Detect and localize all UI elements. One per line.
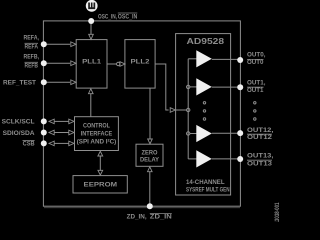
svg-text:(SPI AND I²C): (SPI AND I²C)	[77, 139, 117, 146]
svg-text:ZD_IN: ZD_IN	[150, 214, 172, 221]
block PLL1	[76, 40, 107, 89]
wire driver OUT0 output	[212, 58, 238, 60]
wire bus stub to driver OUT12	[190, 133, 197, 135]
svg-text:EEPROM: EEPROM	[84, 181, 118, 188]
block PLL2	[125, 40, 155, 89]
wire driver OUT13 output	[212, 158, 238, 160]
svg-text:OUT12: OUT12	[247, 134, 272, 141]
wire control interface up to PLL1	[90, 94, 92, 117]
arrowhead REFB into PLL1	[71, 61, 76, 66]
wire REFA to PLL1	[43, 43, 70, 45]
svg-text:INTERFACE: INTERFACE	[81, 131, 113, 138]
wire control interface to EEPROM	[99, 156, 101, 171]
svg-text:ZERO: ZERO	[142, 149, 158, 156]
wire bus stub to driver OUT1	[190, 86, 197, 88]
svg-text:OUT13,: OUT13,	[247, 152, 274, 159]
arrowheads SDIO bidirectional	[49, 130, 54, 135]
pin dot OUT12	[237, 130, 243, 136]
svg-text:DELAY: DELAY	[140, 157, 160, 164]
pin dot REFB	[41, 60, 47, 66]
pin dot REF_TEST	[41, 79, 47, 85]
arrowhead ZD_IN into zero delay	[148, 167, 153, 172]
block clock distribution AD9528	[176, 34, 231, 195]
svg-text:REFA,: REFA,	[24, 35, 40, 42]
wire ZD_IN pin up to zero delay	[149, 172, 151, 207]
block CONTROL INTERFACE	[75, 117, 119, 151]
wire REF_TEST to PLL1	[43, 81, 70, 83]
pin dot CS	[41, 140, 47, 146]
wire bus stub to driver OUT13	[188, 158, 196, 160]
wire REFB to PLL1	[43, 62, 70, 64]
pin dot ZD_IN	[147, 203, 153, 209]
svg-text:REFB: REFB	[25, 63, 39, 70]
svg-text:14-CHANNEL: 14-CHANNEL	[186, 180, 225, 186]
svg-text:OSC_IN,: OSC_IN,	[98, 13, 117, 20]
wire driver OUT1 output	[212, 86, 238, 88]
wire bus stub to driver OUT0	[188, 58, 196, 60]
pin dot OSC_IN	[88, 18, 94, 24]
svg-text:ZD_IN,: ZD_IN,	[127, 214, 147, 221]
node junction circle bus OUT1	[187, 85, 190, 88]
svg-text:CSB: CSB	[23, 141, 35, 148]
svg-text:OUT13: OUT13	[247, 161, 272, 168]
ellipsis dots drivers	[203, 102, 205, 104]
arrowhead PLL2 into zero delay	[148, 139, 153, 144]
wire SCLK bidirectional	[55, 120, 70, 122]
pin dot OUT0	[237, 57, 243, 63]
arrowhead into distribution block	[170, 108, 175, 113]
pin dot REFA	[41, 41, 47, 47]
driver triangle OUT12	[196, 125, 212, 142]
arrowhead REFA into PLL1	[71, 42, 76, 47]
svg-text:REF_TEST: REF_TEST	[3, 80, 36, 87]
svg-text:OSC_IN: OSC_IN	[118, 13, 138, 20]
arrowhead eeprom link up	[98, 151, 103, 156]
wire clock bus vertical	[187, 59, 189, 159]
arrowhead REF_TEST into PLL1	[71, 80, 76, 85]
svg-text:OUT1: OUT1	[247, 87, 264, 94]
wire PLL2 to distribution block	[155, 64, 169, 110]
arrowhead PLL1 to PLL2	[120, 62, 125, 67]
driver triangle OUT13	[196, 150, 212, 167]
block EEPROM	[73, 176, 127, 193]
svg-text:REFA: REFA	[25, 44, 39, 51]
pin dot OUT1	[237, 84, 243, 90]
block ZERO DELAY	[136, 144, 163, 166]
svg-text:SCLK/SCL: SCLK/SCL	[2, 119, 35, 126]
wire OSC_IN down to PLL1	[90, 21, 92, 34]
arrowhead OSC_IN into PLL1 top	[89, 34, 94, 39]
driver triangle OUT0	[196, 50, 212, 67]
svg-text:CONTROL: CONTROL	[83, 122, 110, 129]
arrowhead eeprom link down	[98, 170, 103, 175]
svg-text:REFB,: REFB,	[24, 54, 40, 61]
wire into clock bus	[176, 109, 187, 111]
arrowheads SCLK bidirectional	[49, 119, 54, 124]
logo glyph	[88, 3, 95, 10]
pin dot SCLK	[41, 118, 47, 124]
outer chip boundary	[43, 21, 240, 206]
svg-text:AD9528: AD9528	[187, 37, 225, 46]
svg-text:SYSREF MULT GEN: SYSREF MULT GEN	[186, 187, 230, 193]
wire PLL2 down to zero delay	[149, 88, 151, 139]
node junction circle bus main input	[187, 108, 190, 111]
wire SDIO bidirectional	[55, 132, 70, 134]
svg-text:OUT1,: OUT1,	[247, 79, 266, 86]
svg-text:OUT12,: OUT12,	[247, 127, 274, 134]
node circle PLL2 input	[117, 62, 120, 65]
pin dot SDIO	[41, 130, 47, 136]
wire PLL1 to PLL2	[107, 63, 116, 65]
arrowheads CS bidirectional	[49, 141, 54, 146]
svg-text:OUT0,: OUT0,	[247, 51, 266, 58]
wire driver OUT12 output	[212, 132, 238, 134]
svg-text:PLL1: PLL1	[82, 58, 101, 65]
svg-text:SDIO/SDA: SDIO/SDA	[3, 130, 35, 137]
ellipsis dots output labels	[254, 102, 256, 104]
svg-text:OUT0: OUT0	[247, 59, 264, 66]
svg-text:PLL2: PLL2	[131, 58, 150, 65]
pin dot OUT13	[237, 156, 243, 162]
arrowhead control into PLL1 bottom	[89, 89, 94, 94]
svg-text:13038-001: 13038-001	[274, 202, 280, 222]
wire CS bidirectional	[55, 142, 70, 144]
node junction circle bus OUT12	[187, 132, 190, 135]
logo disk	[86, 0, 98, 12]
driver triangle OUT1	[196, 78, 212, 95]
